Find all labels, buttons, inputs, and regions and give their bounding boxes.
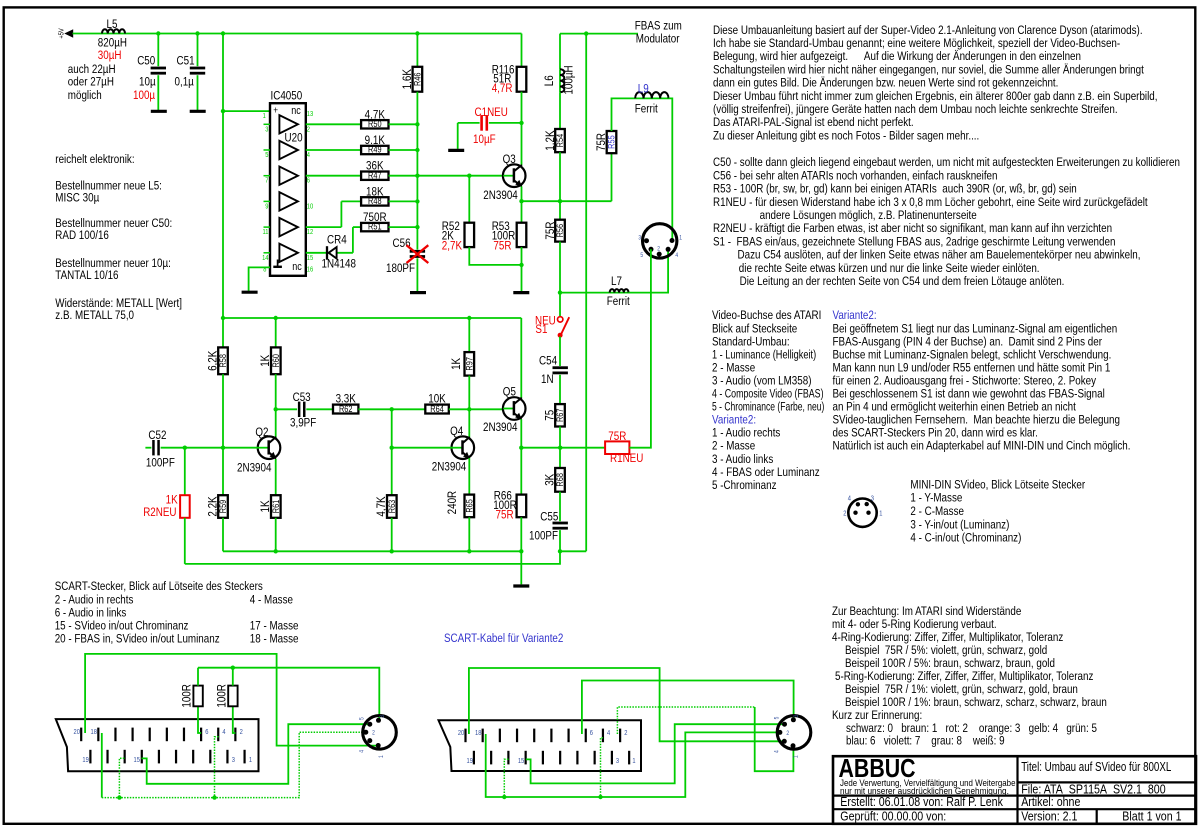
svg-text:5: 5 [359,717,366,720]
svg-text:R68: R68 [555,473,565,487]
svg-text:1: 1 [379,755,386,758]
wire R52 bottom to R53 node [469,247,521,265]
wire riser CR4 to R51 [352,227,354,253]
resistor R50 4.7K [361,120,388,128]
resistor R97 1K [468,318,470,352]
ground C51 [190,110,206,113]
svg-text:(völlig streifenfrei), jüngere: (völlig streifenfrei), jüngere Geräte ha… [713,103,1118,116]
resistor R64 10K [425,405,449,414]
svg-text:L6: L6 [543,75,556,86]
svg-text:S1: S1 [535,323,547,336]
wire SCART-2 masse hook [504,759,508,797]
svg-text:schwarz: 0 braun: 1 rot: 2: schwarz: 0 braun: 1 rot: 2 orange: 3 gel… [846,722,1097,735]
svg-text:L9: L9 [638,83,649,96]
ground C56 [410,291,426,294]
svg-text:C56: C56 [393,237,411,250]
inductor L6 100µH [559,69,561,92]
svg-text:9.1K: 9.1K [365,134,386,147]
wire C54 to R67 [559,375,561,404]
svg-text:Dazu C54 auslöten, auf der lin: Dazu C54 auslöten, auf der linken Seite … [738,249,1141,262]
svg-text:Ferrit: Ferrit [607,295,630,308]
svg-text:1 - Luminance (Helligkeit): 1 - Luminance (Helligkeit) [712,349,816,362]
wire L6 to R54 [559,92,561,129]
connector SCART-2 body [439,720,642,771]
wire Q5 emitter node to R1NEU [521,447,605,449]
svg-text:RAD 100/16: RAD 100/16 [55,229,109,242]
svg-text:Buchse mit Luminanz-Signalen b: Buchse mit Luminanz-Signalen belegt, sch… [833,349,1112,362]
svg-text:Widerstände: METALL [Wert]: Widerstände: METALL [Wert] [55,297,182,310]
diode CR4 1N4148 [326,246,328,260]
svg-text:100PF: 100PF [146,457,175,470]
wire R48 to bus [389,200,418,202]
svg-text:Beispeil 100R / 5%: braun, sch: Beispeil 100R / 5%: braun, schwarz, brau… [845,657,1055,670]
svg-text:Beispiel 100R / 1%: braun, sch: Beispiel 100R / 1%: braun, schwarz, scha… [845,696,1107,709]
wire row5 pin12 [306,226,342,228]
svg-text:C50: C50 [137,55,155,68]
wire row5 riser to row4 [340,201,342,227]
IC4050 internal ground mark [277,260,279,267]
wire Q5 emitter [520,419,522,448]
svg-text:2,2K: 2,2K [207,496,220,517]
svg-text:2 - Audio in rechts: 2 - Audio in rechts [55,593,134,606]
svg-text:1: 1 [263,112,267,120]
wire rail corner to Q5 collector [520,318,522,398]
resistor R68 3K [555,468,565,492]
resistor R53 100R [517,223,527,247]
SCART-1 lower pin ticks [89,750,91,764]
svg-text:Beispiel 75R / 5%: violett, g: Beispiel 75R / 5%: violett, grün, schwar… [845,644,1047,657]
svg-text:3,9PF: 3,9PF [290,417,317,430]
svg-text:die rechte Seite etwas kürzen: die rechte Seite etwas kürzen und nur di… [739,262,1040,275]
wire FBAS line corner to L6 [559,34,561,70]
title block frame [833,756,1196,824]
svg-text:2: 2 [843,510,847,518]
resistor R54 1,2K [555,129,565,152]
svg-text:20: 20 [74,729,81,737]
svg-text:3: 3 [379,715,386,718]
wire Q4 base line [392,447,453,449]
svg-text:1N: 1N [541,373,554,386]
svg-text:C50 - sollte dann gleich liege: C50 - sollte dann gleich liegend eingeba… [713,156,1180,169]
svg-text:5-Ring-Kodierung: Ziffer, Ziff: 5-Ring-Kodierung: Ziffer, Ziffer, Ziffer… [835,670,1093,683]
svg-text:1,6K: 1,6K [401,68,414,89]
wire C55 to FBAS node [559,530,561,551]
svg-text:C54: C54 [539,355,557,368]
MINI-DIN pin dots [856,502,860,506]
wire R2NEU top [184,448,186,496]
node R2NEU branch [183,446,187,450]
svg-text:blau: 6 violett: 7 grau:: blau: 6 violett: 7 grau: 8 weiß: 9 [846,735,1005,748]
SCART-2 upper pin ticks [464,729,466,743]
svg-text:Video-Buchse des ATARI: Video-Buchse des ATARI [712,309,821,322]
svg-text:6 - Audio in links: 6 - Audio in links [55,607,127,620]
svg-text:Q5: Q5 [503,386,516,399]
node masse rail-1 b [212,795,216,799]
node audio bus [231,666,235,670]
resistor R65 240R [465,495,475,518]
node rail1 gnd drop [519,549,523,553]
node masse rail-1 a [117,795,121,799]
red X over C56 [407,245,429,263]
wire ground rail1 [223,550,521,552]
node R64/R97/Q4 collector [467,407,471,411]
resistor R2NEU 1K (red) [180,495,190,518]
svg-text:C55: C55 [540,511,558,524]
svg-text:100PF: 100PF [529,530,558,543]
svg-text:1K: 1K [259,354,272,367]
resistor R61 1K [271,495,281,518]
wire row4 to R48 [341,200,361,202]
svg-text:75R: 75R [608,430,626,443]
resistor R51 750R [361,223,388,231]
resistor 100R audio-2 [233,706,236,733]
node +5V/C50 [156,31,160,35]
resistor R46 1,6K [413,67,423,92]
svg-text:FBAS-Ausgang (PIN 4 der Buchse: FBAS-Ausgang (PIN 4 der Buchse) an. Dami… [833,335,1103,348]
wire SCART-2 chroma to DIN pin5 [526,724,785,783]
svg-text:IC4050: IC4050 [271,90,303,103]
svg-text:Beispiel 75R / 1%: violett, g: Beispiel 75R / 1%: violett, grün, schwar… [845,683,1078,696]
svg-text:3: 3 [616,758,620,766]
connector SCART-1 body [56,719,259,771]
node R54/R56 [558,199,562,203]
svg-text:2,7K: 2,7K [442,239,463,252]
wire +5V rail [73,33,522,35]
svg-text:10K: 10K [428,393,446,406]
svg-text:75R: 75R [595,133,608,151]
svg-text:R67: R67 [555,408,565,422]
wire R58 to C52 line [222,374,224,448]
resistor R58 6,2K [222,318,224,347]
svg-text:2N3904: 2N3904 [432,460,466,473]
wire riser to R51 [353,226,361,228]
node R62/R64/R63 [390,407,394,411]
svg-text:nc: nc [291,105,301,117]
wire SCART-1 pin4 masse drop [215,737,219,798]
svg-text:100R: 100R [216,684,229,708]
svg-text:2: 2 [307,126,311,134]
wire node down to rail2 [185,551,560,564]
svg-text:Q2: Q2 [255,426,268,439]
ground C50 [151,110,167,113]
wire Q3 emitter down [521,186,523,222]
wire R63 to rail1 [391,518,393,552]
wire node to Q5 base [469,408,503,410]
svg-text:Dieser Umbau führt nicht immer: Dieser Umbau führt nicht immer zum gleic… [713,90,1157,103]
node bus row5 [415,225,419,229]
ground R53 [513,291,529,294]
svg-text:5 -Chrominanz: 5 -Chrominanz [712,479,777,492]
svg-text:3: 3 [265,126,269,134]
svg-text:R97: R97 [465,357,475,371]
svg-text:SCART-Kabel für Variante2: SCART-Kabel für Variante2 [444,632,563,645]
svg-text:9: 9 [265,203,269,211]
node C55/FBAS/rail2 [558,549,562,553]
svg-text:20 - FBAS in, SVideo in/out Lu: 20 - FBAS in, SVideo in/out Luminanz [55,633,220,646]
svg-text:Ich habe sie Standard-Umbau ge: Ich habe sie Standard-Umbau genannt; ein… [713,37,1120,50]
svg-text:4: 4 [774,750,781,753]
svg-text:3.3K: 3.3K [336,393,357,406]
svg-text:1: 1 [679,235,682,242]
svg-text:TANTAL 10/16: TANTAL 10/16 [55,269,118,282]
resistor R66 100R [517,495,527,518]
wire bus top [416,34,418,67]
node bus row2 [415,148,419,152]
svg-text:R2NEU - kräftigt die Farben et: R2NEU - kräftigt die Farben etwas, ist a… [713,222,1112,235]
svg-text:SCART-Stecker, Blick auf Lötse: SCART-Stecker, Blick auf Lötseite des St… [55,580,264,593]
svg-text:C1NEU: C1NEU [475,106,508,119]
svg-text:4: 4 [222,729,226,737]
transistor Q5 2N3904 [503,397,526,420]
svg-text:17 - Masse: 17 - Masse [250,620,299,633]
wire R52 top [468,176,470,223]
ground rail1 [513,584,529,587]
svg-text:2N3904: 2N3904 [483,189,517,202]
capacitor C53 3,9PF [298,402,301,417]
svg-text:R1NEU: R1NEU [610,452,643,465]
svg-text:L7: L7 [611,275,622,288]
node bus row3 [415,174,419,178]
svg-text:18K: 18K [366,186,384,199]
wire R116 to Q3 collector [521,92,523,165]
resistor R67 75 [555,404,565,426]
svg-text:5: 5 [265,152,269,160]
svg-text:R55: R55 [607,135,617,149]
resistor R56 75R [555,220,565,242]
svg-text:Diese Umbauanleitung basiert a: Diese Umbauanleitung basiert auf der Sup… [713,24,1143,37]
svg-text:4.7K: 4.7K [365,108,386,121]
svg-text:R2NEU: R2NEU [143,506,176,519]
resistor R55 75R (blue) [607,131,617,153]
wire R64 to Q5 base node [449,408,470,410]
svg-text:Variante2:: Variante2: [833,309,877,322]
IC4050 input stubs [264,123,271,125]
capacitor C56 180PF [410,250,425,253]
svg-text:R59: R59 [218,499,228,513]
svg-text:16: 16 [307,266,314,274]
svg-text:4,7K: 4,7K [375,496,388,517]
svg-text:andere Lösungen möglich, z.B.: andere Lösungen möglich, z.B. Platinenun… [760,209,977,222]
wire to IC4050 pin 1 [223,110,270,112]
svg-text:mit 4- oder 5-Ring Kodierung v: mit 4- oder 5-Ring Kodierung verbaut. [832,618,997,631]
wire FBAS zum Modulator line [560,33,638,35]
node masse rail-2 b [598,795,602,799]
svg-text:2: 2 [372,730,375,737]
wire row2 pin4 to R49 [306,149,361,151]
wire L7 line left [560,292,610,294]
wire C52 to Q2 base [161,447,258,449]
node rail1 R63 [390,549,394,553]
capacitor C55 100PF [553,522,568,525]
svg-text:Man kann nun L9 und/oder R55 e: Man kann nun L9 und/oder R55 entfernen u… [833,362,1111,375]
svg-text:6: 6 [307,177,311,185]
svg-text:2N3904: 2N3904 [237,462,271,475]
svg-text:4 - Masse: 4 - Masse [250,593,293,606]
svg-text:1K: 1K [259,500,272,513]
+5V supply arrow [64,29,73,37]
svg-text:C56 - bei sehr alten ATARIs no: C56 - bei sehr alten ATARIs noch vorhand… [713,170,997,183]
svg-text:Q4: Q4 [450,425,463,438]
svg-text:5: 5 [640,253,643,260]
resistor R52 2K [465,223,475,247]
svg-text:15 - SVideo in/out Chrominanz: 15 - SVideo in/out Chrominanz [55,620,189,633]
svg-text:19: 19 [82,757,89,765]
DIN-3 pin dots [791,717,796,722]
SCART-1 upper pin ticks [80,728,82,742]
svg-text:reichelt elektronik:: reichelt elektronik: [55,153,134,166]
svg-text:3 - Y-in/out (Luminanz): 3 - Y-in/out (Luminanz) [910,518,1009,531]
wire R53 to ground [521,247,523,291]
wire SCART-2 pin18 masse to DIN pin2 [486,732,780,797]
wire row1 pin2 to R50 [306,123,361,125]
resistor R59 2,2K [222,448,224,496]
wire R60 to Q2 collector [275,374,277,437]
inductor L5 [102,29,125,33]
wire C1NEU to ground [457,123,459,149]
svg-text:14: 14 [262,254,269,262]
resistor R63 4,7K [387,495,397,518]
resistor R60 1K [275,318,277,347]
resistor R49 9.1K [361,146,388,154]
wire +5V vertical feed [222,34,224,319]
svg-text:4: 4 [848,495,852,503]
svg-text:13: 13 [307,111,314,119]
wire SCART-2 pin20 to DIN pin4 [469,668,784,741]
svg-text:15: 15 [134,757,141,765]
svg-text:1: 1 [249,757,253,765]
svg-text:2: 2 [240,729,244,737]
wire R56 to L7 node [559,242,561,293]
svg-text:4 - Composite Video (FBAS): 4 - Composite Video (FBAS) [712,388,824,401]
wire C1NEU left [458,122,480,124]
wire R54 to emitter node [559,152,561,201]
wire node to R68 [559,448,561,468]
svg-text:820µH: 820µH [98,36,127,49]
svg-text:C51: C51 [177,55,195,68]
svg-text:2 - Masse: 2 - Masse [712,362,755,375]
svg-text:z.B. METALL 75,0: z.B. METALL 75,0 [55,309,134,322]
node R52 branch [467,174,471,178]
wire SCART-2 pin4 masse drop [601,738,604,797]
wire C56 to ground [416,258,418,291]
svg-text:4: 4 [307,152,311,160]
svg-text:Artikel: ohne: Artikel: ohne [1021,794,1081,809]
wire bus R46 to C56 [416,92,418,250]
connector DIN video Buchse (ATARI) [643,224,677,258]
svg-text:10µF: 10µF [473,133,496,146]
DIN-1 pin dots [644,238,649,243]
wire SCART-2 pin2 riser [617,707,754,734]
wire SCART-2 pin6 to DIN pin3 [582,681,794,735]
node C1NEU junction [519,121,523,125]
svg-text:Geprüft: 00.00.00 von:: Geprüft: 00.00.00 von: [840,808,946,823]
svg-text:7: 7 [265,177,269,185]
svg-text:nc: nc [292,261,302,273]
svg-text:1: 1 [632,758,636,766]
svg-text:20: 20 [458,730,465,738]
wire R97 to Q4 collector [468,376,470,438]
capacitor C1NEU 10µF (red) [480,115,483,131]
node R52/R53 bottom [519,263,523,267]
wire lower +5V rail [223,317,521,319]
svg-text:U20: U20 [285,132,303,145]
svg-text:6: 6 [205,729,209,737]
svg-text:100µH: 100µH [563,65,576,94]
wire R62 to node [358,408,391,410]
wire C1NEU right [489,122,522,124]
wire SCART-1 pin15 masse hook [119,758,124,797]
wire SCART-1 chroma pin to DIN pin5 [142,724,370,784]
svg-text:R61: R61 [271,499,281,513]
svg-text:4-Ring-Kodierung: Ziffer, Ziff: 4-Ring-Kodierung: Ziffer, Ziffer, Multip… [832,631,1063,644]
svg-text:1N4148: 1N4148 [322,258,356,271]
wire SCART-1 pin18 masse down [101,733,103,798]
node Q4 base branch [390,446,394,450]
svg-text:dann ein gutes Bild. Die Änder: dann ein gutes Bild. Die Änderungen bzw.… [713,77,1058,90]
resistor R62 3.3K [333,405,358,414]
svg-text:3 - Audio (vom LM358): 3 - Audio (vom LM358) [712,375,812,388]
svg-text:75R: 75R [544,222,557,240]
wire R55 top to L9 [612,98,636,131]
svg-text:auch 22µH: auch 22µH [68,63,116,76]
svg-text:Blick auf Steckseite: Blick auf Steckseite [712,322,797,335]
svg-text:2 - C-Masse: 2 - C-Masse [910,505,964,518]
wire row3 pin6 to R47 [306,175,361,177]
node lower rail left [221,316,225,320]
wire R1NEU to DIN pin5 [629,249,651,447]
node C53 branch [274,407,278,411]
svg-text:36K: 36K [366,160,384,173]
svg-text:5 - Chrominance (Farbe, neu): 5 - Chrominance (Farbe, neu) [712,401,824,414]
svg-text:6,2K: 6,2K [207,350,220,371]
wire Q2 emitter to R61 [275,459,277,495]
svg-text:+5V: +5V [58,28,66,39]
node +5V/C51 [195,31,199,35]
svg-text:2: 2 [786,730,789,737]
svg-text:R58: R58 [218,354,228,368]
svg-text:R63: R63 [387,499,397,513]
svg-text:2N3904: 2N3904 [483,421,517,434]
svg-text:R65: R65 [465,499,475,513]
wire R68 to C55 [559,492,561,522]
svg-text:C53: C53 [293,391,311,404]
svg-text:10µ: 10µ [139,76,156,89]
wire masse rail-1 to DIN pin2 [102,732,366,797]
svg-text:CR4: CR4 [327,234,347,247]
node L7 junction [558,290,562,294]
svg-text:Die Leitung an der rechten Sei: Die Leitung an der rechten Seite von C54… [740,275,1065,288]
svg-text:1: 1 [793,755,800,758]
svg-text:180PF: 180PF [386,262,415,275]
SCART-2 lower pin ticks [473,751,475,765]
svg-text:3K: 3K [544,473,557,486]
buffer triangles U20 [279,115,298,133]
svg-text:100R: 100R [181,684,194,708]
wire R66 top [520,448,522,495]
node bus top at +5V rail [415,31,419,35]
svg-text:+: + [273,105,278,116]
svg-text:18: 18 [475,730,482,738]
svg-text:19: 19 [467,758,474,766]
svg-text:1K: 1K [450,357,463,370]
svg-text:75: 75 [544,410,557,421]
node IC4050 pin1 tap [221,109,225,113]
svg-text:12: 12 [307,229,314,237]
svg-text:18: 18 [91,729,98,737]
svg-text:2: 2 [624,730,628,738]
resistor R116 51R [517,67,527,92]
wire +5V corner down to R116 [521,34,523,67]
